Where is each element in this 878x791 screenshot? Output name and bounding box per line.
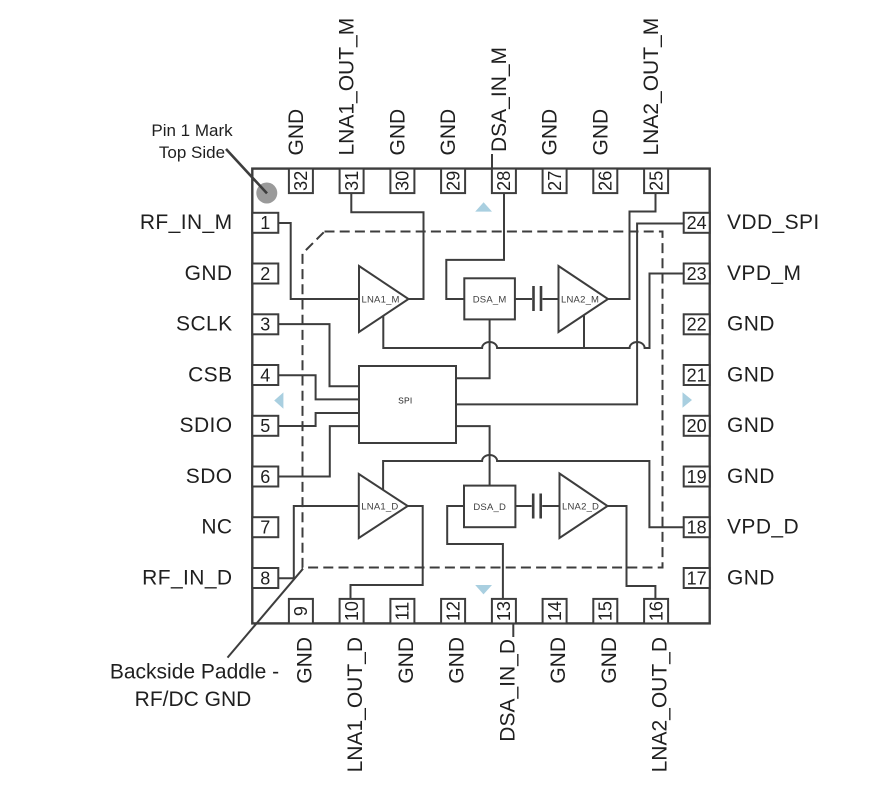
svg-text:GND: GND	[185, 262, 233, 285]
marker arrow left	[274, 392, 283, 408]
svg-text:RF_IN_M: RF_IN_M	[140, 211, 233, 234]
svg-text:VDD_SPI: VDD_SPI	[727, 211, 820, 234]
wire pin 1 RF_IN_M to LNA1_M input	[278, 223, 359, 299]
svg-text:GND: GND	[727, 465, 775, 488]
pin 28 box (DSA_IN_M)	[492, 169, 516, 194]
svg-text:12: 12	[443, 601, 463, 621]
svg-text:GND: GND	[539, 109, 562, 156]
svg-text:15: 15	[596, 601, 616, 621]
pin 20 box (GND)	[684, 416, 710, 436]
pin 12 box (GND)	[441, 599, 465, 624]
svg-text:Top Side: Top Side	[159, 143, 225, 162]
svg-text:25: 25	[646, 171, 666, 191]
svg-text:GND: GND	[727, 566, 775, 589]
backside paddle dashed outline	[303, 232, 663, 568]
pin 30 box (GND)	[390, 169, 414, 194]
pin 5 box (SDIO)	[252, 416, 278, 436]
svg-text:5: 5	[260, 416, 270, 436]
leader line DSA_IN_D label to pin 13	[512, 624, 514, 637]
pin 29 box (GND)	[441, 169, 465, 194]
pin 15 box (GND)	[593, 599, 617, 624]
pin 1 box (RF_IN_M)	[252, 213, 278, 233]
svg-text:DSA_D: DSA_D	[473, 502, 506, 513]
svg-text:NC: NC	[201, 516, 232, 539]
svg-text:VPD_D: VPD_D	[727, 516, 799, 539]
svg-text:11: 11	[393, 602, 413, 621]
svg-text:GND: GND	[589, 109, 612, 156]
chip package outline	[252, 169, 709, 624]
pin 13 box (DSA_IN_D)	[492, 599, 516, 624]
svg-text:23: 23	[687, 264, 707, 284]
pin 19 box (GND)	[684, 467, 710, 487]
marker arrow up (top)	[475, 202, 492, 211]
svg-text:CSB: CSB	[188, 363, 232, 386]
amplifier LNA2_M	[559, 266, 609, 332]
svg-text:SDIO: SDIO	[180, 414, 233, 437]
svg-text:2: 2	[260, 264, 270, 284]
leader line from Pin 1 Mark text to pin 1 mark circle	[226, 149, 267, 193]
wire LNA1_M output to pin 31 LNA1_OUT_M	[351, 193, 423, 300]
svg-text:Backside Paddle -: Backside Paddle -	[110, 661, 279, 684]
svg-text:28: 28	[494, 171, 514, 191]
svg-text:24: 24	[687, 213, 707, 233]
capacitor C_D (DC block)	[515, 505, 559, 507]
pin 3 box (SCLK)	[252, 314, 278, 334]
capacitor C_M (DC block)	[515, 298, 559, 300]
pin 32 box (GND)	[289, 169, 313, 194]
svg-text:SDO: SDO	[186, 465, 233, 488]
svg-text:6: 6	[260, 467, 270, 487]
svg-text:18: 18	[687, 518, 707, 538]
svg-text:LNA1_M: LNA1_M	[362, 295, 400, 306]
wire pin 28 DSA_IN_M to DSA_M input	[446, 193, 504, 300]
wire LNA1_D output to pin 10 LNA1_OUT_D	[351, 506, 423, 599]
svg-text:26: 26	[596, 171, 616, 191]
svg-text:GND: GND	[386, 109, 409, 156]
svg-text:LNA2_OUT_D: LNA2_OUT_D	[649, 637, 672, 772]
svg-text:LNA1_D: LNA1_D	[361, 502, 398, 513]
svg-text:16: 16	[646, 601, 666, 621]
wire VPD_M bias rail: LNA1_M, LNA2_M to pin 23, hops over crossing wires	[383, 274, 684, 349]
wire LNA2_M output to pin 25 LNA2_OUT_M	[608, 193, 656, 300]
svg-text:DSA_IN_M: DSA_IN_M	[488, 47, 511, 152]
pin 18 box (VPD_D)	[684, 517, 710, 537]
svg-text:LNA2_OUT_M: LNA2_OUT_M	[640, 18, 663, 156]
svg-text:GND: GND	[446, 637, 469, 684]
pin 21 box (GND)	[684, 365, 710, 385]
pin 26 box (GND)	[593, 169, 617, 194]
svg-text:20: 20	[687, 416, 707, 436]
svg-text:GND: GND	[285, 109, 308, 156]
pin 23 box (VPD_M)	[684, 264, 710, 284]
svg-text:19: 19	[687, 467, 707, 487]
wire pin 8 RF_IN_D to LNA1_D input	[278, 506, 359, 578]
svg-text:GND: GND	[727, 414, 775, 437]
pin 24 box (VDD_SPI)	[684, 213, 710, 233]
wire SPI to DSA_D control	[456, 426, 490, 486]
leader line DSA_IN_M label to pin 28	[491, 154, 493, 168]
svg-text:Pin 1 Mark: Pin 1 Mark	[151, 121, 233, 140]
wire pin 4 CSB to SPI	[278, 375, 359, 399]
svg-text:27: 27	[545, 171, 565, 191]
pin 4 box (CSB)	[252, 365, 278, 385]
amplifier LNA2_D	[560, 474, 608, 539]
wire pin 5 SDIO to SPI	[278, 413, 359, 426]
svg-text:14: 14	[545, 601, 565, 621]
svg-text:32: 32	[291, 171, 311, 191]
wire VPD_D bias rail: LNA1_D, LNA2_D to pin 18, hop over crossing wire	[383, 455, 684, 527]
pin 17 box (GND)	[684, 568, 710, 588]
marker arrow right	[683, 392, 693, 408]
svg-text:1: 1	[260, 213, 270, 233]
svg-text:LNA1_OUT_D: LNA1_OUT_D	[344, 637, 367, 772]
svg-text:LNA1_OUT_M: LNA1_OUT_M	[336, 18, 359, 156]
pin 8 box (RF_IN_D)	[252, 568, 278, 588]
leader line from Backside Paddle text to paddle outline corner	[228, 569, 304, 658]
amplifier LNA1_D	[359, 474, 408, 538]
svg-text:22: 22	[687, 315, 707, 335]
svg-text:GND: GND	[727, 313, 775, 336]
pin 16 box (LNA2_OUT_D)	[644, 599, 668, 624]
svg-text:3: 3	[260, 315, 270, 335]
pin 31 box (LNA1_OUT_M)	[340, 169, 364, 194]
wire LNA2_D output to pin 16 LNA2_OUT_D	[608, 506, 656, 599]
svg-text:GND: GND	[437, 109, 460, 156]
marker arrow down (bottom)	[475, 585, 492, 594]
SPI control block	[359, 366, 456, 443]
svg-text:17: 17	[687, 568, 707, 588]
svg-text:LNA2_D: LNA2_D	[562, 502, 599, 513]
svg-text:RF_IN_D: RF_IN_D	[142, 566, 232, 589]
svg-text:21: 21	[687, 365, 707, 385]
svg-text:13: 13	[494, 601, 514, 621]
svg-text:LNA2_M: LNA2_M	[561, 295, 599, 306]
svg-text:8: 8	[260, 568, 270, 588]
svg-text:SCLK: SCLK	[176, 313, 232, 336]
pin 6 box (SDO)	[252, 467, 278, 487]
svg-text:31: 31	[342, 171, 362, 191]
svg-text:SPI: SPI	[398, 395, 412, 405]
svg-text:GND: GND	[727, 363, 775, 386]
svg-text:4: 4	[260, 365, 270, 385]
pin 25 box (LNA2_OUT_M)	[644, 169, 668, 194]
wire pin 13 DSA_IN_D to DSA_D input	[447, 506, 503, 599]
svg-text:GND: GND	[598, 637, 621, 684]
attenuator block DSA_D	[464, 486, 515, 528]
wire pin 3 SCLK to SPI	[278, 324, 359, 386]
svg-text:GND: GND	[395, 637, 418, 684]
attenuator block DSA_M	[464, 278, 515, 319]
svg-text:GND: GND	[547, 637, 570, 684]
pin 27 box (GND)	[543, 169, 567, 194]
pin 22 box (GND)	[684, 314, 710, 334]
pin 1 mark circle	[256, 183, 277, 204]
svg-text:DSA_M: DSA_M	[473, 294, 507, 305]
wire SPI to DSA_M control	[456, 319, 490, 378]
wire LNA2_M bias stub	[583, 316, 585, 348]
pin 14 box (GND)	[543, 599, 567, 624]
pin 2 box (GND)	[252, 264, 278, 284]
wire SPI to pin 24 VDD_SPI	[456, 224, 684, 405]
svg-text:30: 30	[393, 171, 413, 191]
pin 10 box (LNA1_OUT_D)	[340, 599, 364, 624]
amplifier LNA1_M	[359, 266, 409, 332]
svg-text:VPD_M: VPD_M	[727, 262, 801, 285]
wire pin 6 SDO to SPI	[278, 426, 359, 476]
pin 9 box (GND)	[289, 599, 313, 624]
svg-text:10: 10	[342, 601, 362, 621]
svg-text:29: 29	[443, 171, 463, 191]
pin 11 box (GND)	[390, 599, 414, 624]
svg-text:7: 7	[260, 518, 270, 538]
pin 7 box (NC)	[252, 517, 278, 537]
svg-text:9: 9	[291, 606, 311, 616]
svg-text:RF/DC GND: RF/DC GND	[135, 688, 252, 711]
svg-text:DSA_IN_D: DSA_IN_D	[496, 639, 519, 742]
svg-text:GND: GND	[293, 637, 316, 684]
